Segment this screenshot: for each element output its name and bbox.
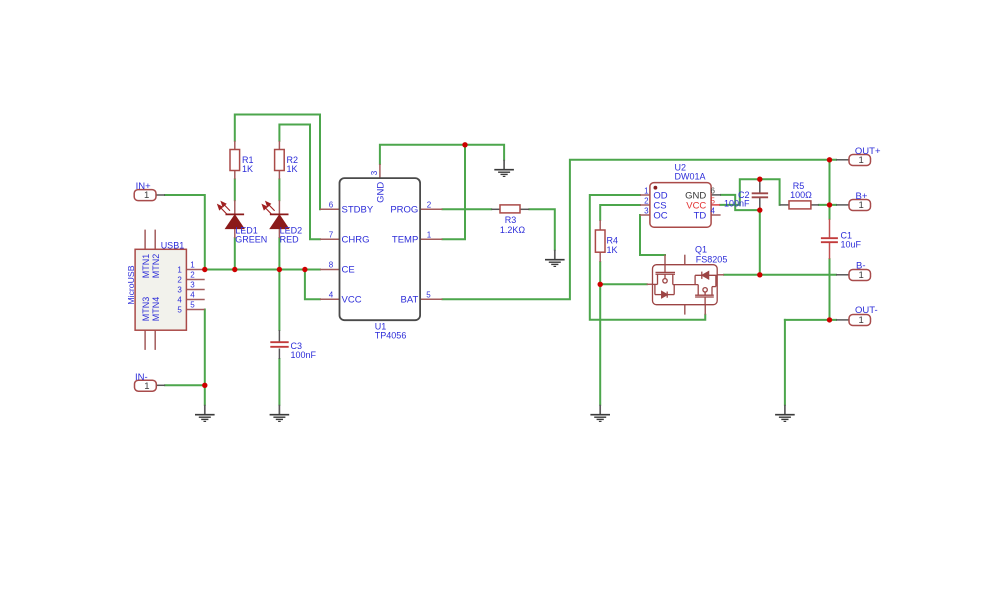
- svg-text:4: 4: [190, 291, 195, 300]
- svg-text:FS8205: FS8205: [696, 254, 728, 264]
- svg-text:RED: RED: [280, 234, 300, 244]
- svg-text:10uF: 10uF: [841, 240, 862, 250]
- svg-text:6: 6: [329, 201, 334, 210]
- svg-text:2: 2: [427, 201, 432, 210]
- svg-text:OC: OC: [653, 210, 667, 221]
- svg-text:2: 2: [177, 275, 182, 284]
- svg-text:MTN3: MTN3: [141, 297, 151, 322]
- svg-text:1: 1: [859, 315, 864, 326]
- svg-text:100nF: 100nF: [291, 350, 317, 360]
- svg-text:MicroUSB: MicroUSB: [126, 265, 136, 304]
- svg-text:DW01A: DW01A: [675, 171, 706, 181]
- svg-text:5: 5: [426, 290, 431, 299]
- svg-text:VCC: VCC: [342, 294, 362, 305]
- svg-text:4: 4: [329, 290, 334, 299]
- svg-text:3: 3: [177, 285, 182, 294]
- svg-text:6: 6: [710, 186, 715, 195]
- svg-text:BAT: BAT: [401, 294, 419, 305]
- svg-text:8: 8: [329, 261, 334, 270]
- svg-text:1.2KΩ: 1.2KΩ: [500, 225, 526, 235]
- svg-text:4: 4: [710, 206, 715, 215]
- svg-text:MTN2: MTN2: [151, 254, 161, 279]
- svg-text:1: 1: [644, 186, 649, 195]
- svg-text:1K: 1K: [607, 245, 618, 255]
- svg-text:TP4056: TP4056: [375, 330, 407, 340]
- svg-text:4: 4: [177, 295, 182, 304]
- svg-text:GND: GND: [375, 182, 386, 203]
- svg-text:R3: R3: [505, 215, 517, 225]
- svg-text:5: 5: [190, 301, 195, 310]
- svg-text:USB1: USB1: [161, 241, 185, 251]
- svg-text:CE: CE: [342, 265, 355, 276]
- svg-text:MTN4: MTN4: [151, 297, 161, 322]
- svg-text:GREEN: GREEN: [235, 234, 267, 244]
- svg-text:Q1: Q1: [695, 245, 707, 255]
- svg-text:1: 1: [859, 155, 864, 166]
- svg-text:TEMP: TEMP: [392, 235, 418, 246]
- svg-text:1K: 1K: [287, 164, 298, 174]
- svg-text:1: 1: [177, 265, 182, 274]
- svg-text:3: 3: [190, 281, 195, 290]
- svg-text:100Ω: 100Ω: [790, 190, 812, 200]
- svg-text:TD: TD: [694, 210, 707, 221]
- svg-text:2: 2: [644, 196, 649, 205]
- svg-text:1: 1: [859, 200, 864, 211]
- svg-text:7: 7: [329, 231, 334, 240]
- svg-text:CHRG: CHRG: [342, 235, 370, 246]
- svg-text:1: 1: [190, 261, 195, 270]
- svg-text:3: 3: [644, 206, 649, 215]
- svg-text:2: 2: [190, 271, 195, 280]
- svg-text:5: 5: [710, 196, 715, 205]
- svg-text:1: 1: [427, 231, 432, 240]
- svg-text:1: 1: [859, 270, 864, 281]
- svg-text:1: 1: [144, 190, 149, 201]
- svg-text:1: 1: [144, 381, 149, 392]
- svg-text:STDBY: STDBY: [342, 205, 374, 216]
- svg-text:MTN1: MTN1: [141, 254, 151, 279]
- svg-text:3: 3: [370, 170, 379, 175]
- svg-text:1K: 1K: [242, 164, 253, 174]
- svg-text:5: 5: [177, 305, 182, 314]
- svg-text:100nF: 100nF: [724, 198, 750, 208]
- svg-text:PROG: PROG: [390, 205, 418, 216]
